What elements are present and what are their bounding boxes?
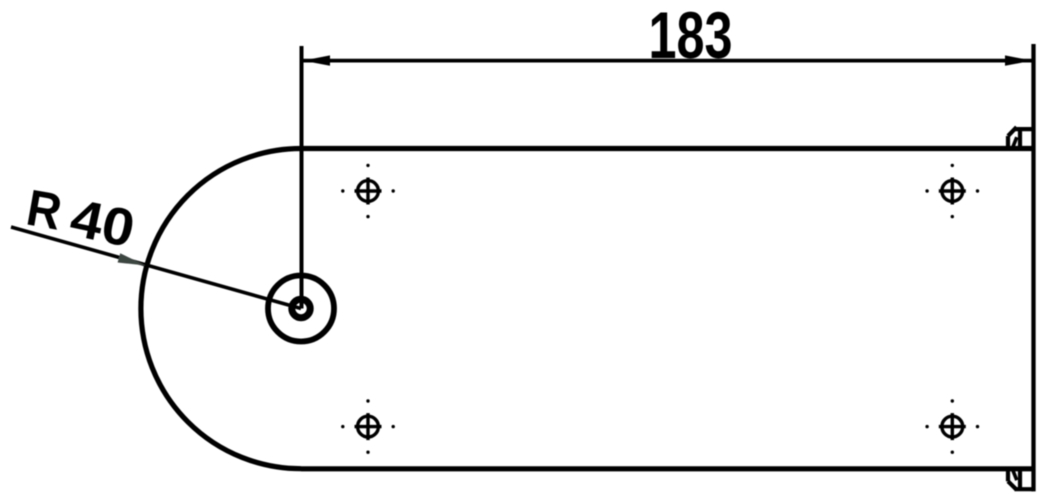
plate right edge (also dimension extension line) [1031, 44, 1035, 491]
svg-text:183: 183 [649, 0, 733, 72]
dimension arrow left [303, 55, 330, 65]
bottom tab: inner rectangle left side [1018, 469, 1022, 489]
top tab: top horizontal [1015, 127, 1034, 131]
radius leader arrowhead [118, 253, 146, 265]
top tab: inner short diagonal [1012, 137, 1017, 148]
pivot outer circle [268, 276, 334, 342]
plate bottom edge [301, 466, 1036, 471]
left dimension extension line [300, 46, 304, 309]
bottom tab: inner short diagonal [1012, 469, 1017, 480]
crosshair hole mark top-left [355, 178, 382, 205]
bottom tab: bottom horizontal [1015, 487, 1034, 491]
plate top edge [301, 146, 1036, 151]
bottom tab: outer diagonal [1008, 481, 1017, 490]
top tab: outer diagonal [1008, 127, 1017, 136]
pivot inner circle [292, 299, 310, 317]
top tab: outer left vertical [1006, 136, 1010, 151]
crosshair hole mark top-right [939, 178, 966, 205]
plate outline: left rounded end R40 arc [141, 149, 301, 469]
dimension arrow right [1005, 55, 1032, 65]
top tab: inner rectangle left side [1018, 129, 1022, 148]
radius leader line R40 [11, 227, 301, 309]
crosshair hole mark bottom-left [355, 413, 382, 440]
bottom tab: outer left vertical [1006, 467, 1010, 482]
dimension line 183 [303, 59, 1032, 63]
crosshair hole mark bottom-right [939, 413, 966, 440]
